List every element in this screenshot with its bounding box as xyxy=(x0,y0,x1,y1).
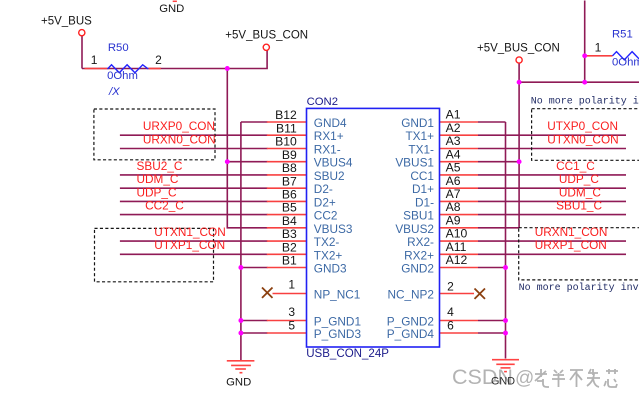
junction pin6 xyxy=(503,331,508,336)
svg-text:0Ohm: 0Ohm xyxy=(107,70,138,82)
wire A4 xyxy=(478,161,519,163)
wire B9 xyxy=(227,161,267,163)
pin B4 stub xyxy=(267,227,307,229)
svg-text:P_GND3: P_GND3 xyxy=(314,327,362,341)
wire A8 xyxy=(478,214,626,216)
wire pin5 xyxy=(241,332,268,334)
wire left +5V rail xyxy=(82,51,267,69)
pin A9 stub xyxy=(440,227,479,229)
pin A3 stub xyxy=(440,148,479,150)
svg-text:B8: B8 xyxy=(282,161,297,175)
wire pin6 xyxy=(478,332,506,334)
pin A7 stub xyxy=(440,200,479,202)
pin A10 stub xyxy=(440,240,479,242)
junction R51 pin1 xyxy=(582,53,587,58)
svg-text:VBUS2: VBUS2 xyxy=(395,222,434,236)
wire +5V_BUS drop xyxy=(81,36,83,69)
svg-text:B9: B9 xyxy=(282,148,297,162)
svg-text:@: @ xyxy=(515,368,534,389)
junction A4 VBUS1 xyxy=(517,159,522,164)
svg-text:GND4: GND4 xyxy=(314,116,347,130)
pin B2 stub xyxy=(267,253,307,255)
svg-text:CC2_C: CC2_C xyxy=(145,199,184,213)
svg-text:5: 5 xyxy=(288,318,295,332)
ground (right bottom) xyxy=(492,360,519,372)
wire B10 xyxy=(120,148,268,150)
wire A1 xyxy=(478,121,506,123)
pin A5 stub xyxy=(440,174,479,176)
pin A11 stub xyxy=(440,253,479,255)
svg-text:B2: B2 xyxy=(282,240,297,254)
svg-text:SBU2: SBU2 xyxy=(314,169,345,183)
svg-text:URXP0_CON: URXP0_CON xyxy=(143,119,215,133)
wire A11 xyxy=(478,253,626,255)
pin B5 stub xyxy=(267,214,307,216)
wire A3 xyxy=(478,148,626,150)
svg-text:URXN1_CON: URXN1_CON xyxy=(535,225,608,239)
svg-text:B11: B11 xyxy=(276,121,297,135)
svg-text:TX1-: TX1- xyxy=(408,143,434,157)
pin 2 stub xyxy=(440,293,475,295)
svg-text:4: 4 xyxy=(447,305,454,319)
connector CON2 USB_CON_24P xyxy=(307,108,440,347)
svg-text:RX2+: RX2+ xyxy=(404,248,434,262)
svg-text:6: 6 xyxy=(447,318,454,332)
wire A7 xyxy=(478,200,626,202)
pin R50.2 stub xyxy=(148,68,161,70)
pin B11 stub xyxy=(267,134,307,136)
svg-text:No more polarity inversion: No more polarity inversion xyxy=(519,282,639,294)
svg-text:0Ohm: 0Ohm xyxy=(612,56,639,68)
annotation box left 1 xyxy=(94,109,215,160)
wire left GND vertical xyxy=(240,122,242,360)
svg-text:A2: A2 xyxy=(446,121,461,135)
pin B1 stub xyxy=(267,267,307,269)
svg-text:3: 3 xyxy=(288,305,295,319)
pin B12 stub xyxy=(267,121,307,123)
junction rail/R51 branch xyxy=(582,80,587,85)
no-ERC marker pin 2 xyxy=(475,289,486,299)
ground (left bottom) xyxy=(227,361,255,373)
svg-text:UTXP1_CON: UTXP1_CON xyxy=(154,238,225,252)
pin B9 stub xyxy=(267,161,307,163)
wire right +5V vertical branch xyxy=(518,82,520,228)
junction B1 GND3 xyxy=(238,265,243,270)
svg-text:B1: B1 xyxy=(282,254,297,268)
svg-text:GND1: GND1 xyxy=(401,116,434,130)
annotation box right 2 xyxy=(519,228,639,280)
ground (top, clipped) xyxy=(173,0,177,2)
svg-text:B12: B12 xyxy=(275,108,297,122)
svg-text:VBUS1: VBUS1 xyxy=(395,156,434,170)
pin A8 stub xyxy=(440,214,479,216)
svg-text:R50: R50 xyxy=(108,42,129,54)
svg-text:A12: A12 xyxy=(446,253,468,267)
wire right +5V rail xyxy=(519,64,639,83)
power port +5V_BUS_CON (left) xyxy=(263,44,269,50)
svg-text:B7: B7 xyxy=(282,174,297,188)
power port +5V_BUS xyxy=(79,30,85,36)
svg-text:UTXP0_CON: UTXP0_CON xyxy=(547,119,618,133)
svg-text:+5V_BUS: +5V_BUS xyxy=(41,16,92,28)
svg-text:CC1_C: CC1_C xyxy=(556,159,595,173)
svg-text:B6: B6 xyxy=(282,188,297,202)
svg-text:No more polarity inversion: No more polarity inversion xyxy=(531,96,639,108)
wire B3 xyxy=(120,240,268,242)
wire B2 xyxy=(120,253,268,255)
wire B1 xyxy=(241,267,268,269)
power port +5V_BUS_CON (right) xyxy=(516,57,522,63)
svg-text:RX1-: RX1- xyxy=(314,143,341,157)
wire B6 xyxy=(120,200,268,202)
svg-text:UDP_C: UDP_C xyxy=(559,172,599,186)
svg-text:NP_NC1: NP_NC1 xyxy=(314,288,361,302)
wire A12 xyxy=(478,267,506,269)
pin A12 stub xyxy=(440,267,479,269)
pin R50.1 stub xyxy=(85,68,108,70)
svg-text:2: 2 xyxy=(447,280,454,294)
svg-text:CC2: CC2 xyxy=(314,209,338,223)
wire B5 xyxy=(120,214,268,216)
pin B3 stub xyxy=(267,240,307,242)
pin A1 stub xyxy=(440,121,479,123)
no-ERC marker pin 1 xyxy=(262,288,273,298)
wire right GND vertical xyxy=(505,122,507,359)
junction rail/branch xyxy=(225,66,230,71)
svg-text:UDM_C: UDM_C xyxy=(137,172,179,186)
pin B8 stub xyxy=(267,174,307,176)
svg-text:SBU1: SBU1 xyxy=(403,209,434,223)
wire pin4 xyxy=(478,320,506,322)
pin B7 stub xyxy=(267,187,307,189)
svg-text:A11: A11 xyxy=(446,240,467,254)
resistor R51 xyxy=(613,52,639,60)
svg-text:RX1+: RX1+ xyxy=(314,129,344,143)
svg-text:+5V_BUS_CON: +5V_BUS_CON xyxy=(225,30,308,42)
junction right rail xyxy=(517,80,522,85)
pin 4 stub xyxy=(440,320,479,322)
svg-text:GND3: GND3 xyxy=(314,262,347,276)
svg-text:TX1+: TX1+ xyxy=(405,129,434,143)
svg-text:A4: A4 xyxy=(446,147,461,161)
svg-text:NC_NP2: NC_NP2 xyxy=(387,288,434,302)
svg-text:TX2+: TX2+ xyxy=(314,248,343,262)
wire A10 xyxy=(478,240,626,242)
svg-text:D2+: D2+ xyxy=(314,195,336,209)
svg-text:A9: A9 xyxy=(446,213,461,227)
svg-text:A5: A5 xyxy=(446,161,461,175)
svg-text:A8: A8 xyxy=(446,200,461,214)
wire A6 xyxy=(478,187,626,189)
svg-text:A7: A7 xyxy=(446,187,461,201)
wire B12 xyxy=(241,121,268,123)
svg-text:A3: A3 xyxy=(446,134,461,148)
pin A4 stub xyxy=(440,161,479,163)
pin B6 stub xyxy=(267,200,307,202)
junction pin4 xyxy=(503,318,508,323)
svg-text:A1: A1 xyxy=(446,108,461,122)
resistor R50 xyxy=(108,65,149,73)
wire A9 xyxy=(478,227,519,229)
svg-text:VBUS4: VBUS4 xyxy=(314,156,353,170)
svg-text:B4: B4 xyxy=(282,214,297,228)
junction A12 GND2 xyxy=(503,265,508,270)
svg-text:GND: GND xyxy=(491,376,515,388)
annotation box right 1 xyxy=(532,109,639,161)
pin B10 stub xyxy=(267,148,307,150)
svg-text:/X: /X xyxy=(108,86,120,98)
svg-text:UTXN0_CON: UTXN0_CON xyxy=(547,132,618,146)
pin 1 stub xyxy=(273,293,307,295)
svg-text:URXP1_CON: URXP1_CON xyxy=(535,238,607,252)
pin 3 stub xyxy=(267,320,307,322)
wire B7 xyxy=(120,187,268,189)
junction pin5 xyxy=(238,331,243,336)
pin 5 stub xyxy=(267,332,307,334)
svg-text:R51: R51 xyxy=(612,29,633,41)
wire A2 xyxy=(478,134,626,136)
svg-text:GND: GND xyxy=(159,3,184,15)
svg-text:UDP_C: UDP_C xyxy=(137,185,177,199)
pin A6 stub xyxy=(440,187,479,189)
svg-text:P_GND4: P_GND4 xyxy=(387,327,435,341)
annotation box left 2 xyxy=(95,228,214,281)
wire pin3 xyxy=(241,320,268,322)
svg-text:A10: A10 xyxy=(446,227,468,241)
wire A5 xyxy=(478,174,626,176)
svg-text:UTXN1_CON: UTXN1_CON xyxy=(154,225,225,239)
junction B9 VBUS4 xyxy=(225,159,230,164)
svg-text:URXN0_CON: URXN0_CON xyxy=(143,132,216,146)
wire B11 xyxy=(120,134,268,136)
svg-text:B10: B10 xyxy=(275,135,297,149)
watermark CJK glyph blocks xyxy=(535,369,618,387)
svg-text:1: 1 xyxy=(288,278,295,292)
svg-text:VBUS3: VBUS3 xyxy=(314,222,353,236)
svg-text:SBU2_C: SBU2_C xyxy=(137,159,183,173)
svg-text:1: 1 xyxy=(91,53,98,67)
svg-text:B5: B5 xyxy=(282,201,297,215)
svg-text:GND2: GND2 xyxy=(401,262,434,276)
wire left +5V vertical branch xyxy=(227,69,267,228)
svg-text:USB_CON_24P: USB_CON_24P xyxy=(306,348,389,360)
svg-text:D1+: D1+ xyxy=(412,182,434,196)
svg-text:CC1: CC1 xyxy=(410,169,434,183)
svg-text:TX2-: TX2- xyxy=(314,235,340,249)
svg-text:D1-: D1- xyxy=(415,195,434,209)
svg-text:UDM_C: UDM_C xyxy=(559,185,601,199)
svg-text:CON2: CON2 xyxy=(307,96,338,108)
pin 6 stub xyxy=(440,332,479,334)
svg-text:B3: B3 xyxy=(282,227,297,241)
svg-text:1: 1 xyxy=(595,41,602,55)
pin A2 stub xyxy=(440,134,479,136)
svg-text:A6: A6 xyxy=(446,174,461,188)
svg-text:GND: GND xyxy=(226,377,251,389)
wire B8 xyxy=(120,174,268,176)
junction pin3 xyxy=(238,318,243,323)
wire R51 branch vertical xyxy=(584,1,586,83)
svg-text:RX2-: RX2- xyxy=(407,235,434,249)
pin R51.1 stub xyxy=(587,55,613,57)
svg-text:SBU1_C: SBU1_C xyxy=(556,199,602,213)
svg-text:D2-: D2- xyxy=(314,182,333,196)
svg-text:2: 2 xyxy=(155,53,162,67)
svg-text:+5V_BUS_CON: +5V_BUS_CON xyxy=(477,42,560,54)
